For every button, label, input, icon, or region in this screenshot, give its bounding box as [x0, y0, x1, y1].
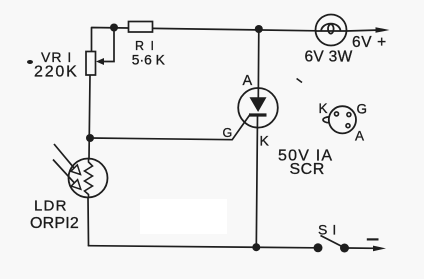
pinout pin K dot: [335, 112, 339, 116]
wiper arrow of VR1: [96, 58, 104, 65]
node junction top-right: [255, 25, 263, 33]
svg-text:6V +: 6V +: [352, 34, 387, 51]
pinout pin A dot: [346, 124, 350, 128]
node junction bottom: [252, 243, 260, 251]
pinout can circle: [329, 106, 356, 133]
svg-text:LDR: LDR: [34, 198, 68, 215]
white patch (scan correction): [140, 199, 227, 234]
lamp filament hump: [321, 24, 340, 32]
svg-text:5·6 K: 5·6 K: [132, 53, 166, 68]
switch S1 terminal right: [340, 244, 349, 253]
speck left of VR1: [27, 60, 33, 64]
wire top rail: [92, 28, 317, 52]
potentiometer VR1: [86, 52, 96, 76]
wire VR1 wiper feed: [99, 28, 114, 62]
LDR light arrow 1 shaft: [54, 144, 74, 168]
speck below lamp: [297, 79, 302, 83]
lamp filament loop: [328, 24, 334, 33]
wire SCR cathode lead: [256, 117, 257, 248]
switch S1 terminal left: [314, 243, 323, 252]
svg-text:A: A: [355, 129, 364, 144]
LDR light arrow 2 head: [71, 180, 81, 190]
svg-text:220K: 220K: [34, 64, 79, 81]
pinout pin G dot: [347, 113, 351, 117]
svg-text:G: G: [223, 126, 233, 140]
SCR triangle: [250, 97, 267, 112]
wire lamp to arrow: [347, 30, 381, 31]
wire LDR bottom lead: [87, 198, 90, 246]
switch S1 lever: [321, 236, 345, 248]
wire bottom rail: [89, 246, 315, 248]
SCR cathode bar: [249, 113, 267, 116]
wire gate run: [90, 115, 250, 140]
resistor R1: [129, 22, 153, 33]
SCR body circle: [238, 88, 278, 128]
label minus sign: [367, 238, 379, 240]
svg-text:SCR: SCR: [290, 161, 325, 178]
svg-text:ORPI2: ORPI2: [30, 215, 79, 232]
lamp LP1 circle: [316, 15, 347, 46]
LDR zigzag element: [85, 159, 93, 197]
svg-text:A: A: [243, 73, 253, 89]
svg-text:K: K: [319, 101, 328, 116]
wire SCR anode lead: [257, 29, 260, 98]
wire left rail pot to LDR: [89, 75, 90, 159]
svg-text:G: G: [357, 101, 368, 116]
pinout tab: [323, 117, 329, 123]
lamp filament line: [316, 30, 347, 32]
svg-text:S I: S I: [318, 221, 337, 237]
LDR circle: [69, 159, 108, 198]
node junction gate: [86, 134, 94, 142]
LDR light arrow 1 head: [71, 165, 81, 175]
LDR light arrow 2 shaft: [53, 160, 74, 183]
node junction top-left: [110, 24, 118, 32]
svg-text:6V 3W: 6V 3W: [305, 49, 353, 66]
arrow supply -: [373, 246, 386, 252]
svg-text:R I: R I: [135, 39, 155, 53]
wire switch to arrow: [348, 247, 376, 249]
arrow supply +: [376, 27, 390, 33]
svg-text:K: K: [260, 133, 270, 149]
